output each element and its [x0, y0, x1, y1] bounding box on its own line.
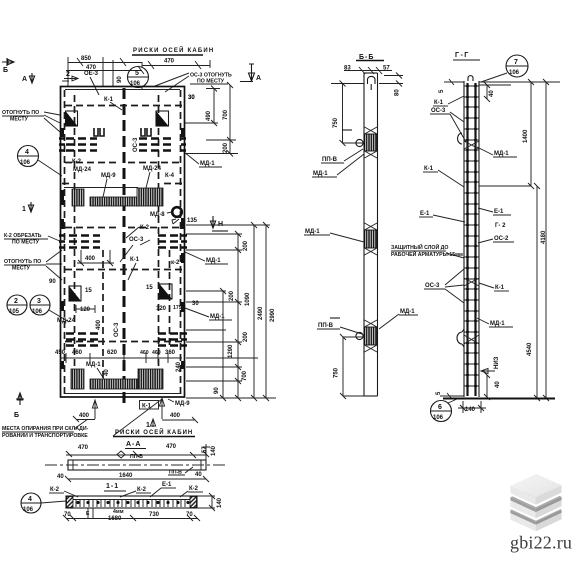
- svg-text:МД-9: МД-9: [175, 401, 190, 407]
- svg-text:ОТОГНУТЬ ПО: ОТОГНУТЬ ПО: [2, 110, 39, 116]
- svg-text:Е-1: Е-1: [420, 211, 430, 217]
- svg-text:А-А: А-А: [126, 441, 141, 448]
- svg-text:МД-1: МД-1: [313, 171, 328, 177]
- svg-text:6: 6: [438, 404, 442, 411]
- svg-text:ПП-В: ПП-В: [130, 454, 143, 460]
- svg-text:400: 400: [96, 319, 102, 330]
- svg-text:850: 850: [81, 56, 92, 62]
- svg-text:490: 490: [206, 110, 212, 121]
- svg-text:400: 400: [85, 256, 96, 262]
- svg-text:700: 700: [223, 109, 229, 120]
- svg-text:4540: 4540: [527, 342, 533, 356]
- svg-text:К-2 ОБРЕЗАТЬ: К-2 ОБРЕЗАТЬ: [4, 233, 42, 239]
- svg-text:К-1: К-1: [434, 100, 444, 106]
- svg-text:МД-1: МД-1: [490, 321, 505, 327]
- svg-text:ЗАЩИТНЫЙ СЛОЙ ДО: ЗАЩИТНЫЙ СЛОЙ ДО: [391, 243, 448, 251]
- svg-text:105: 105: [9, 309, 20, 315]
- svg-text:200: 200: [243, 240, 249, 251]
- svg-text:1400: 1400: [523, 129, 529, 143]
- svg-text:106: 106: [20, 160, 31, 166]
- svg-text:4: 4: [28, 496, 32, 503]
- svg-text:ОС-3: ОС-3: [431, 108, 446, 114]
- svg-text:40: 40: [195, 472, 202, 478]
- svg-text:470: 470: [164, 59, 175, 65]
- svg-text:к-2: к-2: [171, 260, 180, 266]
- svg-text:460: 460: [72, 350, 83, 356]
- svg-text:К-2: К-2: [137, 487, 147, 493]
- svg-text:1: 1: [22, 206, 26, 213]
- svg-text:Б: Б: [3, 67, 8, 74]
- svg-text:К-4: К-4: [165, 173, 175, 179]
- svg-text:750: 750: [333, 117, 339, 128]
- svg-text:730: 730: [149, 512, 160, 518]
- svg-text:К-1: К-1: [130, 257, 140, 263]
- svg-text:135: 135: [187, 218, 198, 224]
- svg-text:450: 450: [55, 350, 66, 356]
- svg-text:ПП-В: ПП-В: [322, 157, 338, 163]
- svg-text:120: 120: [156, 306, 167, 312]
- svg-text:Е-1: Е-1: [162, 482, 172, 488]
- svg-text:106: 106: [32, 309, 43, 315]
- svg-text:ОС-3: ОС-3: [425, 283, 440, 289]
- svg-text:1680: 1680: [108, 516, 122, 522]
- svg-text:2: 2: [14, 298, 18, 305]
- svg-text:МЕСТУ: МЕСТУ: [10, 117, 29, 123]
- svg-text:620: 620: [107, 350, 118, 356]
- svg-text:40: 40: [495, 381, 501, 388]
- svg-text:3: 3: [37, 298, 41, 305]
- svg-text:90: 90: [117, 76, 123, 83]
- svg-text:106: 106: [433, 415, 444, 421]
- svg-text:МД-1: МД-1: [206, 258, 221, 264]
- svg-text:ОС-2: ОС-2: [494, 236, 509, 242]
- svg-text:200: 200: [229, 290, 235, 301]
- svg-text:МД-9: МД-9: [101, 173, 116, 179]
- svg-text:750: 750: [334, 367, 340, 378]
- svg-text:К-1: К-1: [424, 166, 434, 172]
- svg-text:1: 1: [146, 422, 150, 429]
- svg-text:7: 7: [514, 59, 518, 66]
- svg-text:2: 2: [66, 71, 70, 78]
- svg-text:ОС-3: ОС-3: [114, 322, 120, 337]
- svg-text:90: 90: [49, 279, 56, 285]
- svg-text:200: 200: [243, 331, 249, 342]
- svg-text:2490: 2490: [258, 306, 264, 320]
- svg-text:К-2: К-2: [50, 487, 60, 493]
- svg-text:4180: 4180: [541, 230, 547, 244]
- svg-text:К-1: К-1: [142, 404, 152, 410]
- svg-text:РИСКИ ОСЕЙ КАБИН: РИСКИ ОСЕЙ КАБИН: [115, 428, 193, 436]
- svg-text:РИСКИ ОСЕЙ КАБИН: РИСКИ ОСЕЙ КАБИН: [133, 46, 214, 54]
- svg-text:15: 15: [146, 285, 153, 291]
- svg-text:К-2: К-2: [140, 225, 150, 231]
- svg-text:30: 30: [188, 95, 195, 101]
- svg-text:МД-24: МД-24: [73, 167, 92, 173]
- svg-text:120: 120: [80, 307, 91, 313]
- svg-text:106: 106: [509, 70, 520, 76]
- svg-text:140: 140: [465, 407, 476, 413]
- svg-text:А: А: [22, 76, 27, 83]
- svg-text:МД-1: МД-1: [400, 309, 415, 315]
- svg-text:30: 30: [192, 301, 199, 307]
- svg-text:К-1: К-1: [495, 285, 505, 291]
- svg-text:К-2: К-2: [189, 486, 199, 492]
- svg-text:МД-8: МД-8: [150, 212, 165, 218]
- svg-text:Г- 2: Г- 2: [495, 223, 506, 229]
- svg-text:МД-1: МД-1: [86, 362, 101, 368]
- svg-text:gbi22.ru: gbi22.ru: [510, 533, 572, 553]
- svg-text:460: 460: [140, 350, 149, 356]
- svg-text:240: 240: [176, 361, 182, 372]
- svg-text:175: 175: [173, 305, 182, 311]
- svg-text:ОЕ-3: ОЕ-3: [84, 71, 99, 77]
- svg-text:4: 4: [25, 149, 29, 156]
- svg-text:ОС-3: ОС-3: [129, 237, 144, 243]
- svg-text:РОВАНИИ И ТРАНСПОРТИРОВКЕ: РОВАНИИ И ТРАНСПОРТИРОВКЕ: [2, 433, 88, 439]
- svg-text:57: 57: [202, 446, 208, 453]
- svg-text:1640: 1640: [119, 473, 133, 479]
- svg-text:40: 40: [57, 474, 64, 480]
- svg-text:А: А: [256, 75, 261, 82]
- svg-text:40: 40: [489, 90, 495, 97]
- svg-text:106: 106: [23, 507, 34, 513]
- svg-text:15: 15: [85, 288, 92, 294]
- svg-text:1090: 1090: [245, 292, 251, 306]
- svg-text:НИЗ: НИЗ: [494, 356, 500, 369]
- svg-text:ОС-3: ОС-3: [133, 137, 139, 152]
- svg-text:К-2: К-2: [72, 159, 82, 165]
- svg-text:140: 140: [211, 445, 217, 456]
- svg-text:5: 5: [135, 70, 139, 77]
- svg-text:140: 140: [217, 497, 223, 508]
- svg-text:Б: Б: [14, 412, 19, 419]
- svg-text:80: 80: [395, 89, 401, 96]
- svg-text:МД-24: МД-24: [143, 166, 162, 172]
- svg-text:ОТОГНУТЬ ПО: ОТОГНУТЬ ПО: [4, 259, 41, 265]
- svg-text:400: 400: [170, 413, 181, 419]
- svg-text:К-1: К-1: [104, 97, 114, 103]
- svg-text:МД-1: МД-1: [305, 229, 320, 235]
- svg-text:МЕСТА ОПИРАНИЯ ПРИ СКЛАДИ-: МЕСТА ОПИРАНИЯ ПРИ СКЛАДИ-: [2, 426, 89, 432]
- svg-text:700: 700: [242, 370, 248, 381]
- svg-text:360: 360: [165, 350, 176, 356]
- svg-text:ПО МЕСТУ: ПО МЕСТУ: [12, 240, 40, 246]
- svg-text:1-1: 1-1: [106, 483, 119, 490]
- svg-text:МД-1: МД-1: [200, 161, 215, 167]
- svg-text:400: 400: [79, 413, 90, 419]
- svg-text:40: 40: [104, 369, 110, 376]
- svg-text:1290: 1290: [228, 344, 234, 358]
- svg-text:4мм: 4мм: [113, 509, 124, 515]
- svg-text:МД-1: МД-1: [494, 151, 509, 157]
- svg-text:Н: Н: [218, 221, 223, 228]
- svg-text:470: 470: [166, 444, 177, 450]
- svg-text:Г-Г: Г-Г: [455, 52, 470, 59]
- svg-text:Е-1: Е-1: [494, 209, 504, 215]
- svg-text:2990: 2990: [270, 308, 276, 322]
- svg-text:470: 470: [78, 445, 89, 451]
- svg-text:460: 460: [152, 350, 161, 356]
- svg-text:90: 90: [214, 387, 220, 394]
- svg-text:ПП-В: ПП-В: [318, 323, 334, 329]
- svg-text:МЕСТУ: МЕСТУ: [12, 266, 31, 272]
